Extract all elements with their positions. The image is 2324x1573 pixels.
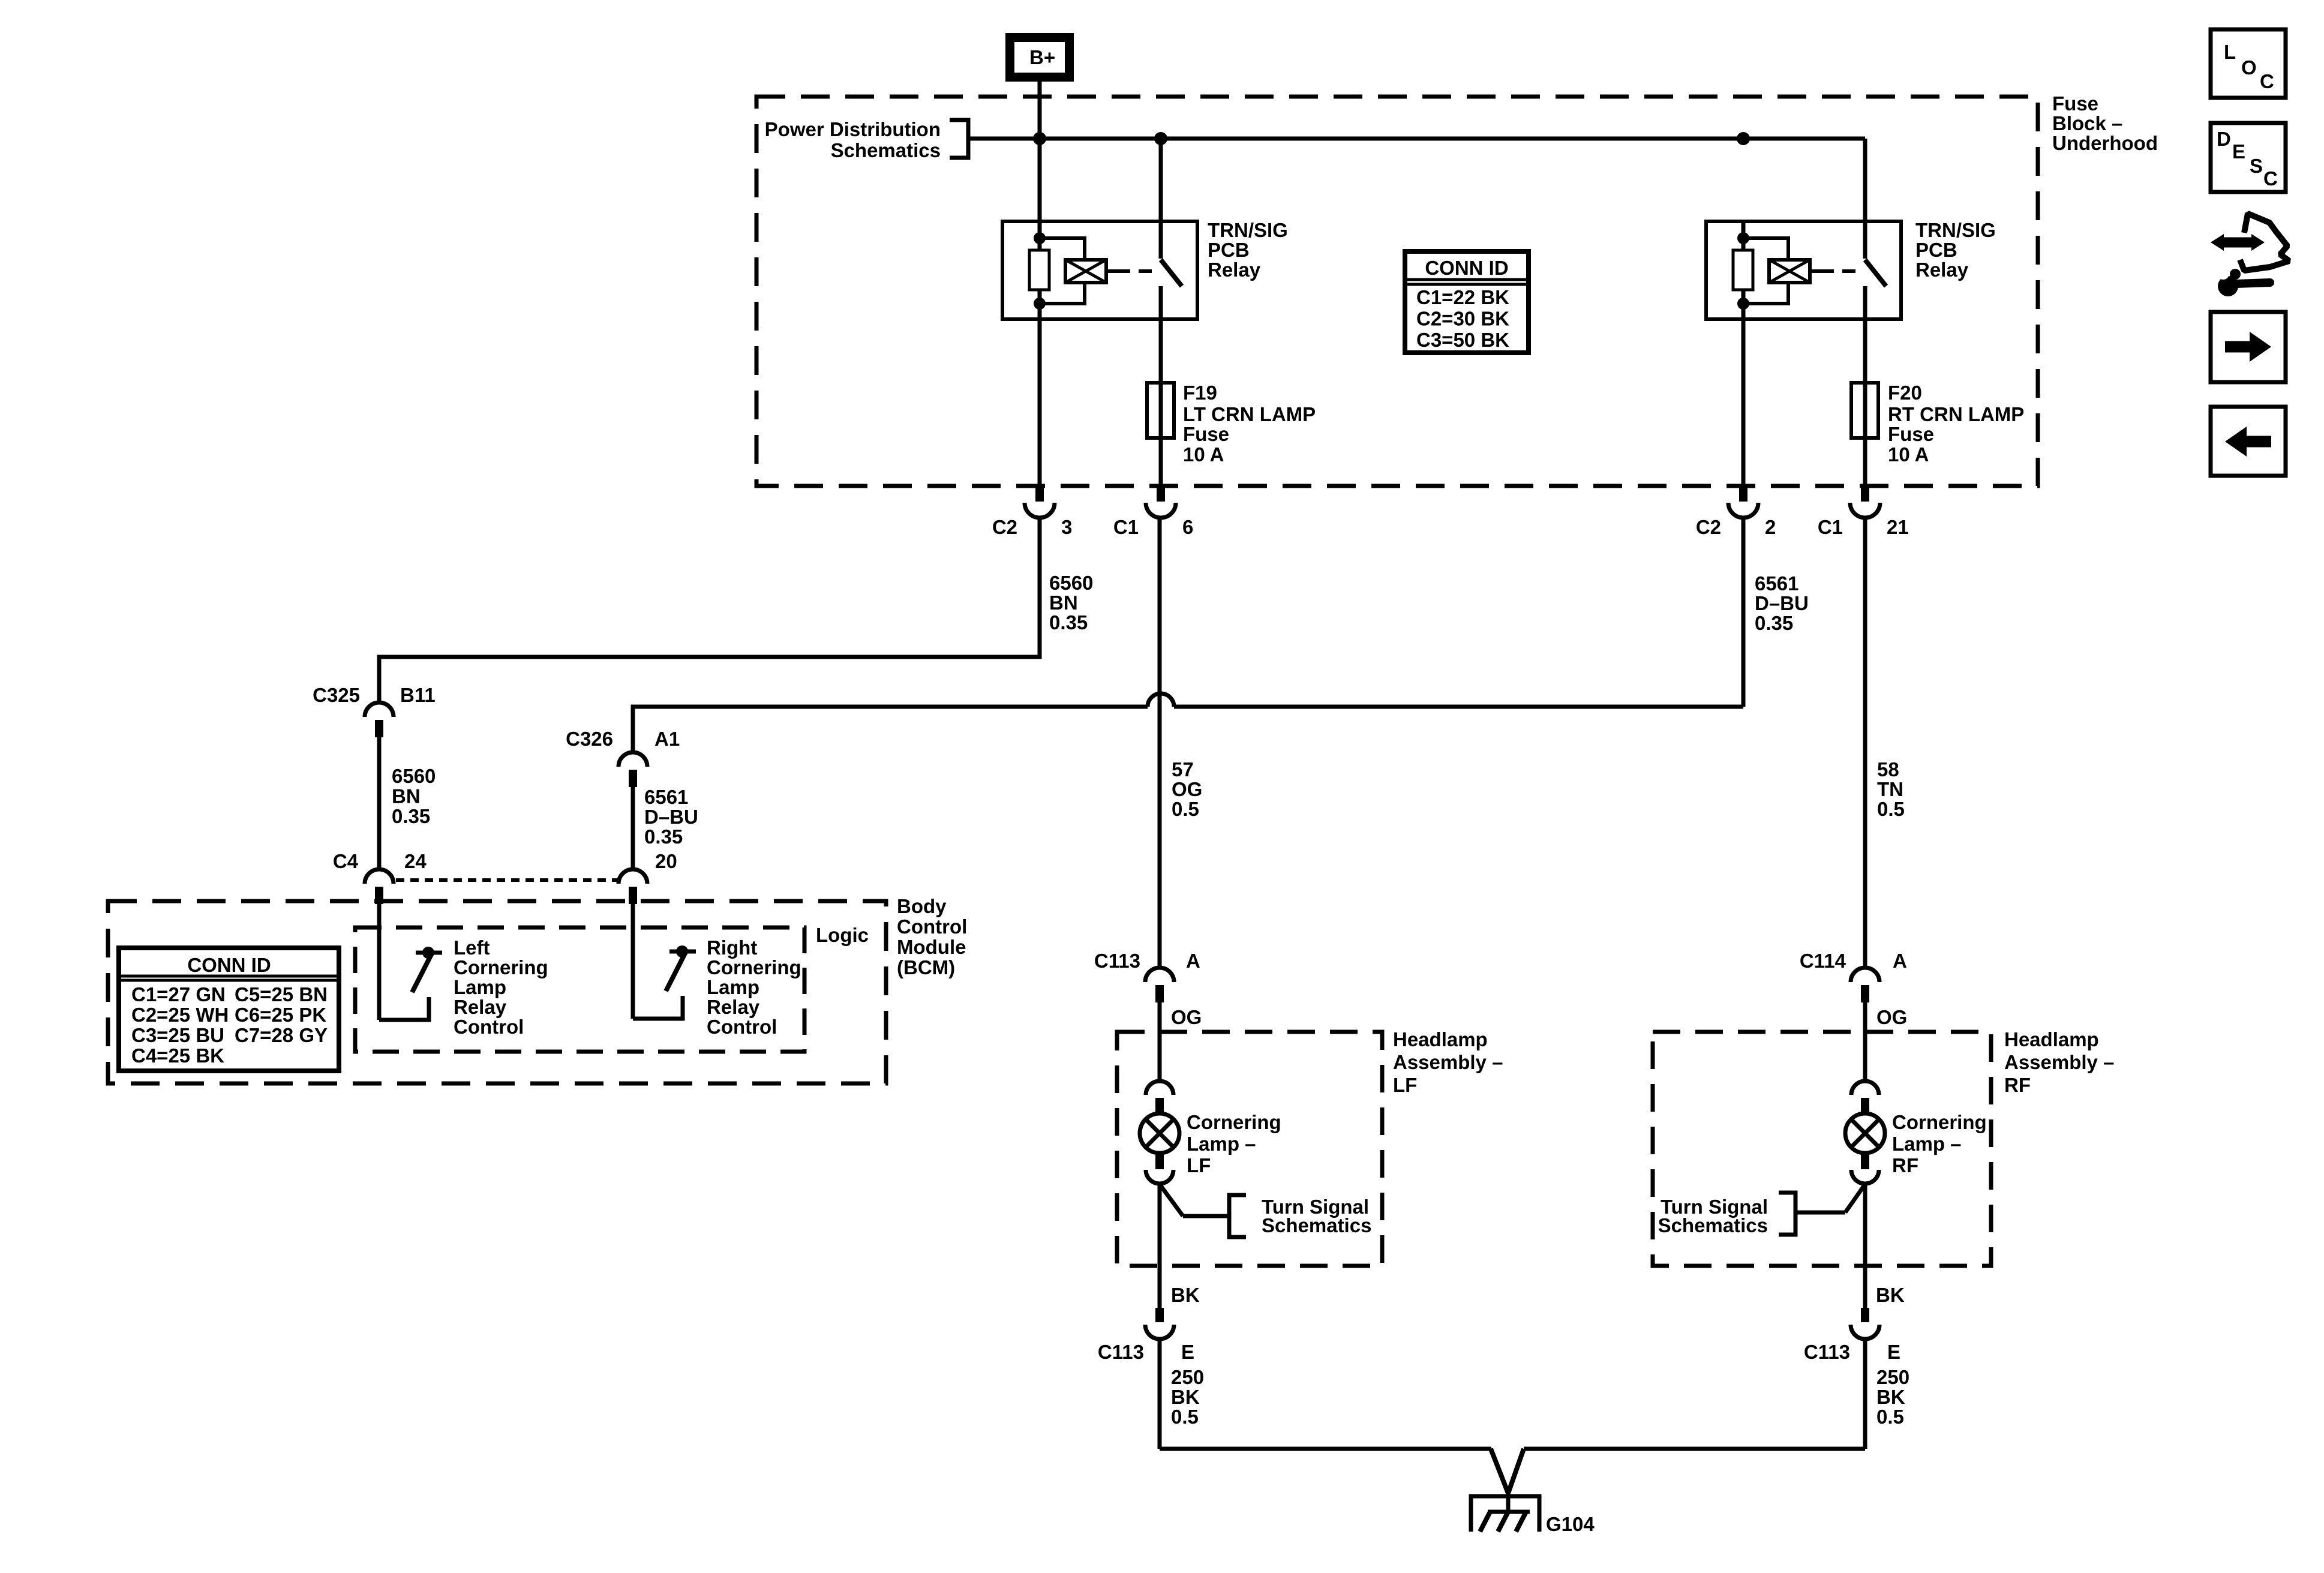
svg-text:C3=25 BU: C3=25 BU [131, 1024, 224, 1046]
svg-text:20: 20 [655, 850, 677, 872]
svg-text:BK: BK [1171, 1284, 1200, 1306]
svg-text:10 A: 10 A [1888, 443, 1929, 466]
svg-text:(BCM): (BCM) [897, 956, 955, 978]
svg-text:O: O [2241, 56, 2257, 79]
svg-text:OG: OG [1171, 1006, 1202, 1028]
svg-text:Cornering: Cornering [707, 956, 801, 978]
svg-text:Headlamp: Headlamp [1393, 1028, 1488, 1050]
svg-text:Relay: Relay [454, 996, 507, 1018]
svg-text:B11: B11 [400, 684, 436, 706]
svg-text:TRN/SIG: TRN/SIG [1915, 219, 1996, 241]
svg-text:Assembly –: Assembly – [2004, 1051, 2114, 1073]
svg-text:21: 21 [1887, 516, 1909, 538]
svg-text:D–BU: D–BU [1755, 592, 1809, 614]
svg-text:Logic: Logic [816, 924, 869, 946]
svg-text:0.5: 0.5 [1877, 798, 1905, 820]
svg-text:0.35: 0.35 [392, 805, 430, 827]
svg-text:Fuse: Fuse [2052, 92, 2098, 115]
svg-text:A: A [1893, 950, 1907, 972]
svg-text:BK: BK [1876, 1284, 1905, 1306]
svg-text:58: 58 [1877, 758, 1899, 781]
svg-text:Assembly –: Assembly – [1393, 1051, 1503, 1073]
svg-text:C325: C325 [313, 684, 360, 706]
svg-text:Left: Left [454, 936, 490, 959]
svg-text:C2: C2 [1696, 516, 1721, 538]
svg-text:A: A [1186, 950, 1200, 972]
svg-text:LT CRN LAMP: LT CRN LAMP [1183, 403, 1316, 425]
svg-text:Schematics: Schematics [831, 139, 941, 161]
svg-text:C1: C1 [1818, 516, 1843, 538]
svg-text:C113: C113 [1098, 1341, 1144, 1363]
svg-text:A1: A1 [654, 728, 680, 750]
svg-text:C326: C326 [566, 728, 613, 750]
svg-text:LF: LF [1187, 1154, 1211, 1176]
svg-text:Cornering: Cornering [1892, 1111, 1987, 1133]
svg-text:BN: BN [392, 785, 421, 807]
svg-text:Control: Control [707, 1016, 777, 1038]
svg-text:0.5: 0.5 [1876, 1406, 1904, 1428]
svg-text:Headlamp: Headlamp [2004, 1028, 2099, 1050]
svg-text:Block –: Block – [2052, 112, 2122, 134]
svg-text:Body: Body [897, 895, 947, 917]
svg-text:0.5: 0.5 [1172, 798, 1199, 820]
svg-text:C113: C113 [1094, 950, 1140, 972]
svg-text:6560: 6560 [392, 765, 436, 787]
svg-text:B+: B+ [1029, 46, 1055, 68]
svg-text:OG: OG [1172, 778, 1202, 800]
svg-text:RT CRN LAMP: RT CRN LAMP [1888, 403, 2024, 425]
svg-text:0.35: 0.35 [1755, 612, 1793, 634]
svg-text:C7=28 GY: C7=28 GY [235, 1024, 328, 1046]
svg-text:250: 250 [1171, 1366, 1204, 1388]
svg-text:C4: C4 [333, 850, 359, 872]
svg-text:6561: 6561 [1755, 572, 1798, 595]
svg-text:BK: BK [1876, 1386, 1905, 1408]
svg-text:D–BU: D–BU [644, 806, 698, 828]
svg-text:Schematics: Schematics [1262, 1214, 1371, 1236]
svg-text:RF: RF [2004, 1074, 2031, 1096]
svg-text:C4=25 BK: C4=25 BK [131, 1044, 224, 1067]
svg-text:C2=25 WH: C2=25 WH [131, 1004, 229, 1026]
svg-text:C5=25 BN: C5=25 BN [235, 983, 328, 1005]
svg-text:10 A: 10 A [1183, 443, 1224, 466]
svg-text:Control: Control [897, 915, 967, 938]
svg-text:6561: 6561 [644, 786, 688, 808]
svg-text:0.35: 0.35 [1049, 611, 1088, 634]
svg-text:Lamp: Lamp [707, 976, 759, 998]
svg-text:E: E [1887, 1341, 1900, 1363]
svg-text:F20: F20 [1888, 382, 1922, 404]
svg-text:C3=50 BK: C3=50 BK [1416, 329, 1509, 351]
svg-text:2: 2 [1765, 516, 1776, 538]
svg-text:C6=25 PK: C6=25 PK [235, 1004, 326, 1026]
svg-text:PCB: PCB [1915, 239, 1957, 261]
svg-text:Schematics: Schematics [1658, 1214, 1768, 1236]
svg-text:6: 6 [1182, 516, 1193, 538]
svg-text:0.5: 0.5 [1171, 1406, 1199, 1428]
svg-text:6560: 6560 [1049, 572, 1093, 594]
svg-text:D: D [2217, 128, 2231, 150]
svg-text:Right: Right [707, 936, 757, 959]
svg-text:0.35: 0.35 [644, 825, 683, 848]
svg-text:C1=27 GN: C1=27 GN [131, 983, 226, 1005]
svg-text:TRN/SIG: TRN/SIG [1208, 219, 1288, 241]
svg-text:L: L [2224, 41, 2236, 63]
svg-text:C1: C1 [1113, 516, 1139, 538]
svg-text:CONN ID: CONN ID [187, 954, 271, 976]
svg-text:Fuse: Fuse [1888, 423, 1934, 445]
svg-text:PCB: PCB [1208, 239, 1250, 261]
svg-text:Fuse: Fuse [1183, 423, 1229, 445]
svg-text:Relay: Relay [1208, 259, 1261, 281]
svg-text:C1=22 BK: C1=22 BK [1416, 286, 1509, 308]
svg-text:Cornering: Cornering [454, 956, 548, 978]
svg-text:LF: LF [1393, 1074, 1417, 1096]
svg-text:CONN ID: CONN ID [1425, 257, 1508, 279]
svg-text:TN: TN [1877, 778, 1903, 800]
svg-text:BK: BK [1171, 1386, 1200, 1408]
svg-text:E: E [2232, 140, 2245, 163]
svg-text:RF: RF [1892, 1154, 1918, 1176]
svg-text:C114: C114 [1800, 950, 1846, 972]
svg-text:Module: Module [897, 936, 966, 958]
svg-text:250: 250 [1876, 1366, 1909, 1388]
svg-text:Lamp: Lamp [454, 976, 506, 998]
svg-text:C: C [2263, 167, 2278, 190]
svg-text:Power Distribution: Power Distribution [765, 118, 941, 140]
svg-text:Control: Control [454, 1016, 524, 1038]
svg-text:3: 3 [1061, 516, 1072, 538]
svg-text:24: 24 [404, 850, 427, 872]
svg-text:C: C [2260, 70, 2274, 92]
svg-text:C2=30 BK: C2=30 BK [1416, 308, 1509, 330]
svg-text:Lamp –: Lamp – [1187, 1133, 1256, 1155]
svg-text:Relay: Relay [707, 996, 760, 1018]
svg-text:S: S [2250, 155, 2263, 177]
svg-text:BN: BN [1049, 592, 1078, 614]
svg-text:Lamp –: Lamp – [1892, 1133, 1962, 1155]
svg-text:F19: F19 [1183, 382, 1217, 404]
svg-text:G104: G104 [1546, 1513, 1595, 1535]
svg-text:C113: C113 [1804, 1341, 1850, 1363]
svg-text:57: 57 [1172, 758, 1194, 781]
svg-text:Cornering: Cornering [1187, 1111, 1281, 1133]
svg-text:OG: OG [1876, 1006, 1907, 1028]
svg-text:C2: C2 [992, 516, 1017, 538]
svg-text:Relay: Relay [1915, 259, 1969, 281]
svg-text:Underhood: Underhood [2052, 132, 2158, 154]
svg-text:E: E [1181, 1341, 1194, 1363]
